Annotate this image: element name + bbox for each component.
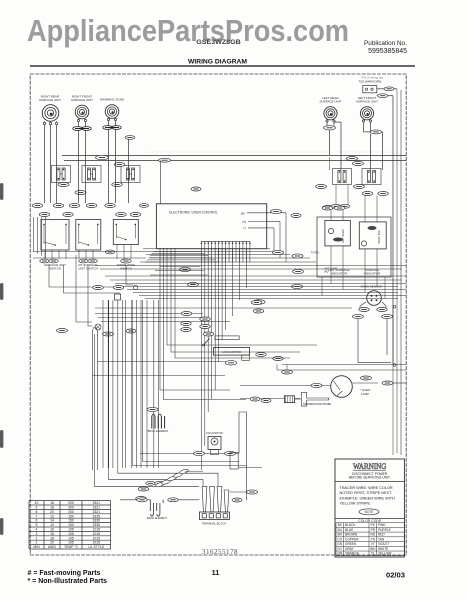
svg-text:16: 16 [50,527,54,531]
svg-text:5: 5 [36,523,38,527]
svg-text:MIN: MIN [33,545,40,549]
svg-text:BK: BK [241,211,245,215]
svg-text:20: 20 [50,541,54,545]
svg-text:5995385845: 5995385845 [368,48,407,55]
svg-text:EXAMPLE: GREEN WIRE WITH: EXAMPLE: GREEN WIRE WITH [340,496,396,500]
svg-text:3335: 3335 [93,514,101,518]
svg-text:18: 18 [50,501,54,505]
svg-text:PR: PR [371,528,376,532]
svg-text:7: 7 [36,514,38,518]
svg-text:3321: 3321 [93,510,101,514]
svg-text:BROIL ELEMENT: BROIL ELEMENT [148,429,169,433]
svg-text:BROWN: BROWN [345,533,358,537]
svg-text:BAKE ELEMENT: BAKE ELEMENT [147,516,167,520]
svg-text:SURF IND: SURF IND [377,230,381,243]
svg-text:OR: OR [337,552,342,556]
svg-text:PURPLE: PURPLE [378,528,391,532]
svg-text:200: 200 [68,501,74,505]
svg-text:16: 16 [50,532,54,536]
svg-text:3335: 3335 [93,519,101,523]
svg-text:TN RD: TN RD [311,251,319,255]
svg-text:105: 105 [68,541,74,545]
svg-text:18: 18 [50,536,54,540]
svg-text:1015: 1015 [93,527,101,531]
svg-text:SURFACE UNIT: SURFACE UNIT [71,98,93,102]
svg-text:02/03: 02/03 [386,571,405,580]
svg-text:14: 14 [50,523,54,527]
svg-text:TRACER WIRE: WIRE COLOR: TRACER WIRE: WIRE COLOR [340,486,393,490]
svg-text:GSE3WZ8GB: GSE3WZ8GB [196,39,241,46]
svg-text:CO: CO [337,537,342,541]
svg-text:III: III [91,173,93,176]
svg-text:SWITCH: SWITCH [49,267,61,271]
svg-text:YELLOW STRIPE.: YELLOW STRIPE. [340,502,372,506]
svg-text:150: 150 [68,523,74,527]
svg-text:3321: 3321 [93,505,101,509]
svg-text:20: 20 [50,510,54,514]
svg-text:* = Non-Illustrated Parts: * = Non-Illustrated Parts [28,578,108,585]
svg-text:12: 12 [50,514,54,518]
svg-text:BLUE: BLUE [345,528,353,532]
svg-text:200: 200 [68,510,74,514]
svg-text:TEMP °C: TEMP °C [64,545,79,549]
svg-text:150: 150 [68,519,74,523]
svg-text:8: 8 [36,510,38,514]
svg-text:3: 3 [36,532,38,536]
svg-text:105: 105 [68,532,74,536]
svg-text:WIRING DIAGRAM: WIRING DIAGRAM [188,59,248,66]
svg-text:316255178: 316255178 [202,548,238,556]
svg-text:18: 18 [50,505,54,509]
svg-text:ORANGE: ORANGE [345,552,359,556]
svg-text:200: 200 [68,505,74,509]
svg-text:HOT SURF: HOT SURF [341,229,345,244]
svg-text:RED: RED [378,533,385,537]
svg-text:WHITE: WHITE [378,547,388,551]
svg-text:SURFACE UNIT: SURFACE UNIT [319,100,341,104]
svg-text:NOTED FIRST, STRIPE NEXT.: NOTED FIRST, STRIPE NEXT. [340,491,393,495]
svg-text:11: 11 [212,568,220,577]
svg-text:1015: 1015 [93,536,101,540]
svg-text:BU: BU [337,528,342,532]
svg-text:UL STYLE: UL STYLE [88,545,105,549]
svg-text:YELLOW: YELLOW [378,552,391,556]
svg-text:TN: TN [371,537,376,541]
svg-text:BR: BR [337,533,342,537]
svg-text:10: 10 [35,501,39,505]
svg-text:VIOLET: VIOLET [378,542,389,546]
svg-text:6: 6 [36,519,38,523]
svg-text:TEMPERATURE PROBE: TEMPERATURE PROBE [303,403,331,406]
svg-text:RD: RD [370,533,375,537]
svg-text:YL: YL [371,552,375,556]
svg-text:105: 105 [68,527,74,531]
svg-text:150: 150 [68,514,74,518]
svg-text:III: III [130,173,132,176]
svg-text:4: 4 [36,527,38,531]
svg-text:1015: 1015 [93,532,101,536]
svg-text:SURFACE UNIT: SURFACE UNIT [39,98,61,102]
svg-text:1015: 1015 [93,541,101,545]
svg-text:WARMING ZONE: WARMING ZONE [100,98,124,102]
svg-text:GREEN: GREEN [345,542,357,546]
svg-text:AppliancePartsPros.com: AppliancePartsPros.com [27,13,349,48]
svg-text:NOTE: NOTE [365,510,374,514]
svg-text:AWG: AWG [48,545,56,549]
svg-text:# = Fast-moving Parts: # = Fast-moving Parts [28,570,101,577]
svg-text:GN: GN [337,542,342,546]
svg-text:WARNING: WARNING [353,462,387,471]
svg-text:SURFACE UNIT: SURFACE UNIT [356,100,378,104]
svg-text:14: 14 [50,519,54,523]
svg-text:9: 9 [36,505,38,509]
svg-text:TOD WARM DRW: TOD WARM DRW [358,80,381,84]
svg-text:COPPER: COPPER [345,537,359,541]
svg-text:IND: IND [324,270,329,274]
svg-text:3321: 3321 [93,501,101,505]
svg-text:TAN: TAN [378,537,385,541]
svg-text:BEFORE SERVICING UNIT.: BEFORE SERVICING UNIT. [349,476,391,480]
svg-text:3335: 3335 [93,523,101,527]
svg-text:LAMP: LAMP [361,392,369,396]
svg-text:WH: WH [370,547,376,551]
svg-text:ELECTRONIC OVEN CONTROL: ELECTRONIC OVEN CONTROL [169,211,218,215]
svg-text:VT: VT [371,542,375,546]
svg-text:TN: TN [242,220,246,224]
svg-text:FAN MOTOR: FAN MOTOR [206,431,223,435]
svg-text:Publication No.: Publication No. [364,40,407,47]
svg-text:105: 105 [68,536,74,540]
svg-text:III: III [60,173,62,176]
svg-text:INDICATOR: INDICATOR [331,272,348,276]
svg-text:OVEN SENSOR: OVEN SENSOR [360,285,383,289]
svg-text:BLACK: BLACK [345,523,356,527]
svg-text:INDICATOR: INDICATOR [364,272,381,276]
svg-text:PINK: PINK [378,523,386,527]
svg-text:GRAY: GRAY [345,547,355,551]
svg-text:U: U [243,226,245,230]
svg-text:TERMINAL BLOCK: TERMINAL BLOCK [202,522,226,526]
svg-text:2: 2 [36,536,38,540]
svg-text:1: 1 [36,541,38,545]
